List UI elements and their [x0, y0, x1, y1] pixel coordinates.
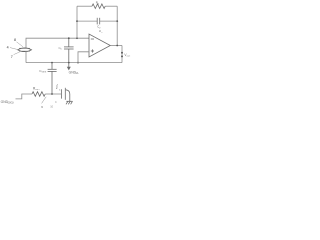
- op-amp U1: [89, 34, 110, 57]
- piezo sensor X1: [18, 48, 32, 52]
- node label 7 leader: [14, 52, 20, 55]
- svg-text:4: 4: [7, 45, 9, 49]
- junction output-feedback: [116, 45, 118, 47]
- junction bottom: [51, 93, 53, 95]
- wire bottom-left step: [16, 94, 33, 99]
- ground arrow: [68, 63, 71, 70]
- svg-text:7: 7: [11, 55, 13, 59]
- wire cap branch right: [100, 20, 118, 22]
- leader bottom: [42, 97, 47, 104]
- junction input-feedback: [76, 37, 78, 39]
- resistor R2: [92, 4, 105, 9]
- wire sensor bottom lead: [25, 51, 27, 63]
- svg-text:6: 6: [41, 105, 43, 109]
- junction feedback right cap: [116, 20, 118, 22]
- wire bottom rail: [26, 62, 122, 64]
- svg-text:2: 2: [98, 3, 100, 5]
- junction Cges rail: [51, 62, 53, 64]
- wire feedback top right: [105, 5, 117, 7]
- op-amp plus sign: [91, 49, 94, 52]
- resistor R1: [32, 92, 45, 97]
- wire output: [110, 45, 122, 47]
- svg-text:1: 1: [101, 32, 103, 34]
- wire feedback right vertical: [116, 6, 118, 45]
- wire feedback top left: [77, 5, 92, 7]
- wire feedback left vertical: [76, 6, 78, 38]
- capacitor Cb: [64, 38, 74, 62]
- svg-text:out: out: [127, 55, 131, 58]
- wire cap branch left: [77, 20, 97, 22]
- svg-text:b: b: [61, 49, 63, 51]
- svg-text:VA: VA: [75, 72, 78, 75]
- svg-text:∫: ∫: [55, 84, 58, 90]
- wire output down: [121, 46, 123, 63]
- svg-text:C: C: [55, 101, 57, 104]
- svg-text:GES: GES: [42, 72, 47, 74]
- capacitor Ck: [61, 88, 65, 100]
- capacitor C2: [97, 18, 100, 25]
- wire plus input: [78, 52, 89, 63]
- node label 8 leader: [17, 42, 24, 47]
- output terminal lower: [121, 55, 123, 57]
- junction plus rail: [77, 62, 79, 64]
- svg-text:10: 10: [50, 105, 53, 109]
- svg-text:8: 8: [14, 38, 16, 42]
- wire sensor top lead: [26, 38, 89, 48]
- wire shield arc: [66, 90, 70, 102]
- junction Cb rail: [68, 62, 70, 64]
- svg-text:(SIG)/: (SIG)/: [8, 102, 15, 105]
- junction feedback left cap: [76, 20, 78, 22]
- wire bottom middle: [45, 93, 61, 95]
- output terminal upper: [121, 52, 123, 54]
- node label 4 leader: [10, 48, 17, 50]
- junction input-Cb: [68, 37, 70, 39]
- op-amp minus sign: [91, 38, 94, 40]
- capacitor Cges: [48, 63, 57, 94]
- svg-text:ISO: ISO: [36, 89, 40, 91]
- chassis ground: [66, 101, 73, 104]
